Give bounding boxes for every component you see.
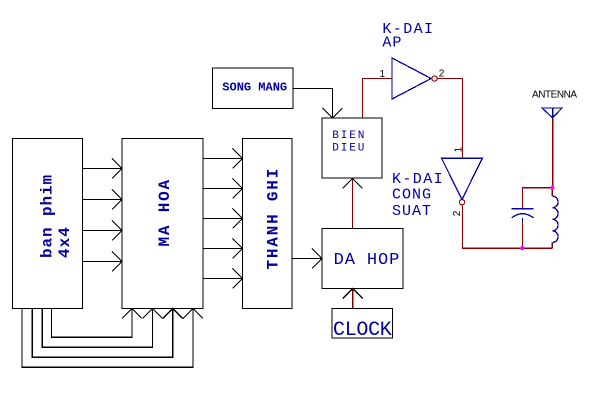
svg-text:BIEN: BIEN bbox=[332, 130, 366, 142]
feedback wire 4 bbox=[22, 309, 203, 368]
wire SONG MANG to BIEN DIEU bbox=[293, 88, 342, 118]
antenna symbol bbox=[532, 89, 577, 118]
junction node top bbox=[550, 186, 554, 190]
wire junction to capacitor branch bbox=[523, 188, 553, 249]
block MA HOA bbox=[122, 139, 203, 309]
svg-text:CLOCK: CLOCK bbox=[333, 319, 392, 342]
wire coil leads bbox=[551, 188, 553, 249]
wire MA HOA to THANH GHI bit 2 bbox=[203, 179, 243, 199]
svg-text:CONG: CONG bbox=[392, 186, 432, 203]
feedback wire 2 bbox=[42, 309, 162, 348]
junction node bottom bbox=[520, 246, 524, 250]
wire MA HOA to THANH GHI bit 3 bbox=[203, 209, 243, 229]
svg-text:AP: AP bbox=[382, 35, 402, 52]
wire CLOCK to DA HOP bbox=[343, 289, 363, 309]
svg-text:DA HOP: DA HOP bbox=[334, 251, 401, 270]
block ban phim 4x4 bbox=[13, 139, 83, 309]
block THANH GHI bbox=[243, 139, 293, 309]
inductor L1 bbox=[552, 196, 558, 242]
svg-text:4x4: 4x4 bbox=[56, 226, 74, 258]
op-amp U2 K-DAI CONG SUAT bbox=[392, 158, 482, 220]
svg-text:MA HOA: MA HOA bbox=[156, 178, 174, 246]
wire antenna lead bbox=[552, 118, 554, 188]
wire ban phim to MA HOA bit 3 bbox=[83, 221, 123, 241]
svg-text:ban phim: ban phim bbox=[39, 174, 57, 258]
svg-text:2: 2 bbox=[439, 69, 445, 80]
U1 bubble bbox=[432, 76, 437, 81]
wire DA HOP to BIEN DIEU bbox=[343, 179, 363, 229]
svg-text:2: 2 bbox=[452, 210, 463, 216]
op-amp U1 K-DAI AP bbox=[382, 21, 434, 99]
wire U2 output to tank bottom bbox=[463, 206, 553, 248]
svg-text:DIEU: DIEU bbox=[332, 142, 366, 154]
svg-text:SUAT: SUAT bbox=[392, 203, 432, 220]
block CLOCK bbox=[332, 309, 393, 343]
wire BIEN DIEU to U1 input bbox=[363, 79, 393, 119]
wire ban phim to MA HOA bit 4 bbox=[83, 252, 123, 272]
svg-text:1: 1 bbox=[454, 146, 465, 152]
feedback wire 3 bbox=[32, 309, 183, 358]
wire ban phim to MA HOA bit 1 bbox=[83, 159, 123, 179]
wire MA HOA to THANH GHI bit 1 bbox=[203, 149, 243, 169]
wire U1 output to U2 input bbox=[438, 79, 463, 159]
block DA HOP bbox=[322, 229, 403, 289]
wire MA HOA to THANH GHI bit 5 bbox=[203, 269, 243, 289]
wire MA HOA to THANH GHI bit 4 bbox=[203, 239, 243, 259]
U2 bubble bbox=[459, 200, 464, 205]
svg-text:THANH GHI: THANH GHI bbox=[265, 167, 283, 270]
feedback wire 1 bbox=[52, 309, 143, 338]
wire THANH GHI to DA HOP bbox=[292, 249, 322, 269]
block BIEN DIEU bbox=[322, 118, 382, 178]
svg-text:SONG MANG: SONG MANG bbox=[222, 81, 287, 95]
svg-text:1: 1 bbox=[380, 69, 386, 80]
wire ban phim to MA HOA bit 2 bbox=[83, 190, 123, 210]
svg-text:ANTENNA: ANTENNA bbox=[532, 89, 577, 100]
capacitor C1 bbox=[512, 209, 534, 221]
block SONG MANG bbox=[213, 68, 294, 109]
